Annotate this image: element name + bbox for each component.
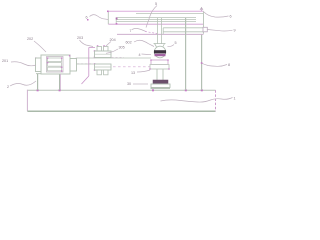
svg-text:305: 305 (119, 46, 125, 50)
svg-text:13: 13 (131, 71, 135, 75)
motor stand (36, 74, 68, 90)
svg-text:203: 203 (77, 36, 83, 40)
motor fin box (47, 57, 64, 73)
label 202 (27, 37, 46, 52)
label 8 (201, 62, 230, 67)
fin 2 (48, 63, 62, 67)
label 1 (161, 97, 236, 103)
motor body (41, 55, 70, 74)
fixture foot block (153, 80, 168, 84)
label 2 (7, 81, 36, 89)
label 6 (204, 12, 232, 19)
svg-text:2: 2 (7, 85, 9, 89)
fixture housing 2 (150, 65, 169, 70)
svg-text:1: 1 (234, 97, 236, 101)
wheel hub magenta (155, 54, 166, 56)
fin 3 (48, 67, 62, 71)
fixture housing (151, 60, 168, 65)
svg-text:6: 6 (86, 16, 88, 20)
base platform (27, 90, 215, 112)
coupling bolt bottom right (104, 70, 109, 75)
coupling upper block (95, 51, 112, 58)
housing magenta dots (149, 59, 169, 69)
label 305 (106, 46, 125, 54)
label 13 (131, 70, 150, 75)
fixture flange (151, 84, 170, 88)
coupling bolt top right (104, 47, 109, 52)
svg-text:5: 5 (175, 41, 177, 45)
label 201 (2, 59, 36, 66)
label 602 (126, 40, 155, 46)
coupling magenta L (82, 48, 96, 85)
svg-text:204: 204 (110, 38, 116, 42)
carriage rails (163, 28, 203, 35)
svg-text:8: 8 (228, 63, 230, 67)
beam dark tick (116, 18, 118, 20)
label 7 (130, 28, 158, 33)
svg-text:30: 30 (127, 82, 131, 86)
shaft lower magenta dashes (77, 63, 93, 65)
shaft upper magenta dashes (112, 57, 125, 59)
rail line (117, 33, 204, 35)
label 204 (106, 38, 116, 47)
right bracket (203, 27, 207, 32)
gantry beam outer (108, 11, 203, 34)
fixture base line (151, 87, 171, 89)
svg-text:9: 9 (234, 29, 236, 33)
fin magenta dots (35, 55, 77, 72)
svg-text:602: 602 (126, 41, 132, 45)
label 5 (146, 2, 157, 28)
label 206 (86, 15, 109, 21)
label 4 leader (139, 53, 152, 57)
svg-text:6: 6 (230, 15, 232, 19)
coupling bolt top left (97, 47, 102, 52)
fin 1 (48, 58, 62, 62)
right column (200, 8, 203, 91)
svg-text:4: 4 (139, 53, 141, 57)
coupling corner dots (94, 45, 105, 71)
label 30 (127, 82, 148, 86)
wheel hub dark (154, 50, 166, 53)
coupling lower block (95, 64, 112, 70)
grinding wheel circle (154, 46, 166, 58)
label 9 (208, 29, 236, 33)
motor left cap (36, 58, 42, 72)
beam inner lines (116, 14, 203, 25)
label 5b wheel leader (168, 41, 177, 47)
coupling bolt bottom left (97, 70, 102, 75)
wheel column (158, 18, 162, 44)
svg-text:202: 202 (27, 37, 33, 41)
gantry column mid (185, 18, 187, 90)
label 203 (77, 36, 93, 47)
motor right cap (70, 59, 77, 72)
shaft centerline dashed (108, 66, 151, 68)
base top dots (37, 89, 203, 91)
svg-text:7: 7 (130, 29, 132, 33)
shaft bottom line (77, 63, 94, 65)
shaft top line (77, 57, 152, 59)
fixture legs (157, 69, 163, 80)
coupling mid verticals (101, 51, 103, 70)
svg-text:201: 201 (2, 59, 8, 63)
leg magenta accent (60, 74, 62, 90)
wheel top taper (154, 44, 166, 50)
